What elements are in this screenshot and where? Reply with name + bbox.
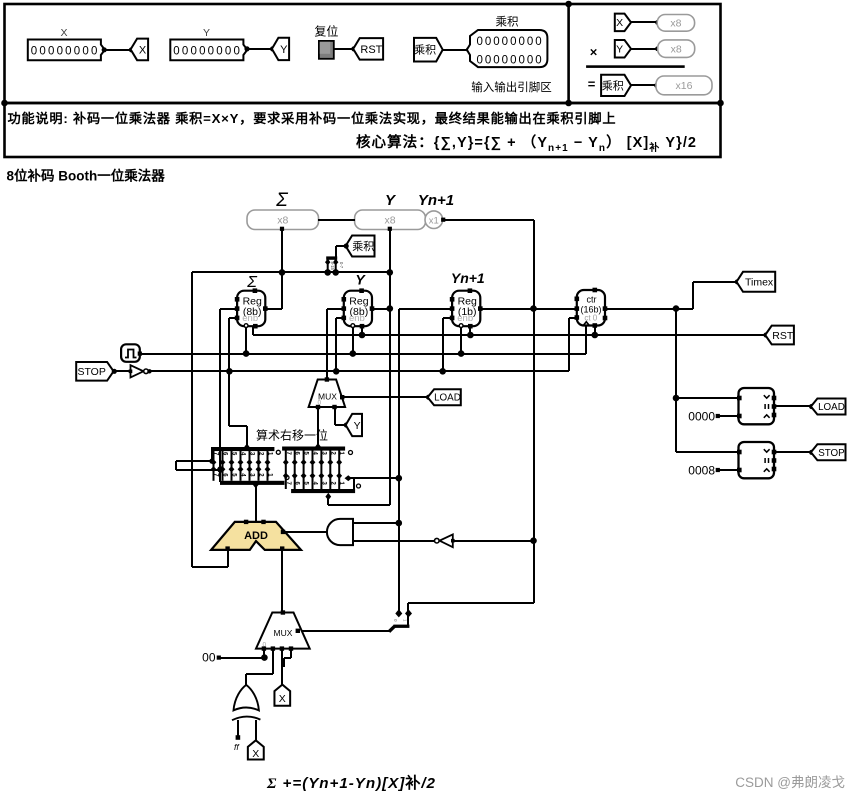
wire sigma feedback riser x=192.4 xyxy=(191,272,193,567)
svg-text:LOAD: LOAD xyxy=(434,393,461,404)
svg-text:输入输出引脚区: 输入输出引脚区 xyxy=(471,80,552,94)
svg-text:LOAD: LOAD xyxy=(818,402,845,413)
junction shifted-out on riser xyxy=(396,475,403,482)
wire x1 probe to Yn+1 drop xyxy=(444,219,534,221)
splitter right out stub arrow xyxy=(345,475,352,481)
wire comparator1 = to LOAD tunnel xyxy=(774,405,812,407)
tunnel X (formula box) xyxy=(615,14,631,32)
svg-text:Y: Y xyxy=(616,44,623,56)
wire Yn+1 net drop x=533.5 xyxy=(533,220,535,603)
solder dot Timex tip xyxy=(735,279,740,284)
constant 00 xyxy=(202,651,221,665)
wire splitter1 botbar lead xyxy=(219,470,221,482)
wire counter en stub xyxy=(569,317,577,319)
inverter NOT gate (west) xyxy=(435,534,455,547)
wire MUX1 select to LOAD tunnel xyxy=(344,396,429,398)
wire RegYn1 clock drop x=461.1 xyxy=(460,327,462,354)
wire RegY clock drop x=352.3 xyxy=(352,327,354,354)
wire clock net horizontal y=353.6 xyxy=(140,353,586,355)
adder ADD xyxy=(211,520,301,551)
clock component xyxy=(121,344,142,362)
junction Yn+1 probe tap xyxy=(530,305,537,312)
wire bracket vertical xyxy=(175,461,177,470)
wire MUX2 in3 drop xyxy=(290,649,292,658)
solder dot 乘积 tunnel tip xyxy=(344,243,349,248)
svg-text:算术右移一位: 算术右移一位 xyxy=(256,428,328,443)
wire 00 to MUX2 in0 xyxy=(219,657,264,659)
solder dot STOP left tip xyxy=(112,369,117,374)
solder dot RST right tip xyxy=(763,332,768,337)
wire RegSigma en riser x=229.4 xyxy=(228,318,230,426)
wire ADD out drop to MUX2 xyxy=(281,550,283,612)
wire comparator2 > to STOP tunnel xyxy=(774,451,812,453)
svg-text:CSDN @弗朗凌戈: CSDN @弗朗凌戈 xyxy=(735,775,845,790)
frame divider between pin area and formula box xyxy=(567,4,570,103)
tunnel STOP (left) xyxy=(76,362,113,381)
wire splitter2 botbar right lead xyxy=(353,478,355,490)
wire to Timex riser x=693 xyxy=(692,282,694,309)
tunnel LOAD (mid) xyxy=(428,389,461,405)
svg-text:0000: 0000 xyxy=(688,410,715,424)
wire MUX1 in0 drop to splitter2 xyxy=(317,407,319,446)
svg-text:STOP: STOP xyxy=(77,366,105,378)
splitter select leg2 arrow xyxy=(405,609,412,617)
input pin X (8-bit) xyxy=(28,40,105,61)
wire X pin to X tunnel xyxy=(104,49,132,51)
wire XOR inA from constant ff xyxy=(237,720,239,738)
probe x8 for Y register xyxy=(355,210,426,230)
wire ADD inA drop xyxy=(227,550,229,567)
svg-text:8-15: 8-15 xyxy=(330,262,335,271)
splitter left bottom exit arrow xyxy=(253,481,259,488)
svg-text:STOP: STOP xyxy=(818,448,845,459)
wire MUX1 in1 drop xyxy=(334,407,336,425)
tunnel X (top-left) xyxy=(131,39,149,61)
svg-text:00000000: 00000000 xyxy=(173,45,242,57)
wire MUX2 select horizontal y=631 xyxy=(298,630,390,632)
svg-text:=: = xyxy=(588,76,596,91)
junction RegSigma en on STOP-inv xyxy=(226,368,233,375)
solder dot RST tunnel tip xyxy=(351,46,356,51)
frame pin-area box xyxy=(5,4,721,103)
svg-text:Y: Y xyxy=(280,44,288,56)
junction product splitter leg B xyxy=(332,269,339,276)
probe x8 for X xyxy=(657,15,694,32)
tunnel STOP (right) xyxy=(811,444,846,460)
wire 乘积 tunnel lead horizontal xyxy=(336,245,347,247)
junction product splitter leg A xyxy=(324,269,331,276)
svg-text:00000000: 00000000 xyxy=(477,55,544,67)
corner dot splitter1 top lead xyxy=(209,459,214,464)
splitter product leg 8-15 xyxy=(325,259,330,273)
svg-text:RST: RST xyxy=(360,44,382,56)
svg-text:核心算法：{∑,Y}={∑ + （Yn+1 − Yn） [X: 核心算法：{∑,Y}={∑ + （Yn+1 − Yn） [X]补 Y}/2 xyxy=(356,133,696,154)
tunnel X (bottom) xyxy=(248,740,264,760)
tunnel 乘积 (formula box) xyxy=(601,75,631,96)
splitter right bottom entry arrow xyxy=(325,493,331,500)
junction RegYn1 reset on RST xyxy=(467,332,474,339)
wire bracket top horizontal xyxy=(176,460,212,462)
comparator U_stop (>= 0008) xyxy=(737,442,776,478)
svg-text:00: 00 xyxy=(202,651,216,665)
tunnel RST (top-left) xyxy=(353,38,383,60)
svg-text:8位补码 Booth一位乘法器: 8位补码 Booth一位乘法器 xyxy=(7,168,166,184)
junction RegY Q on Y net xyxy=(387,305,394,312)
wire RegY reset drop x=361.8 xyxy=(361,326,363,335)
wire RegY en stub xyxy=(336,317,344,319)
comparator U_load (== 0000) xyxy=(737,388,776,424)
svg-text:X: X xyxy=(252,748,259,760)
junction Yn+1 drop at NOT input xyxy=(530,537,537,544)
wire 0008 to comparator2 B xyxy=(718,469,738,471)
svg-text:X: X xyxy=(139,44,147,56)
wire sigma feedback bus horizontal y=272.4 xyxy=(192,271,390,273)
splitter right (Y shift) xyxy=(282,447,360,494)
wire splitter1 bottom to ADD xyxy=(255,484,257,522)
XOR gate (north) xyxy=(232,685,260,720)
svg-text:x8: x8 xyxy=(277,215,288,227)
pin square ∑ probe bottom xyxy=(280,227,284,231)
svg-text:RST: RST xyxy=(772,330,794,342)
svg-text:enb: enb xyxy=(242,313,258,324)
svg-text:乘积: 乘积 xyxy=(496,15,519,29)
solder dot x8 mid pin xyxy=(655,46,660,51)
wire Y feedback horizontal y=505.3 xyxy=(328,504,390,506)
multiplexer MUX2 xyxy=(256,610,310,651)
splitter right top entry arrow xyxy=(315,443,321,450)
splitter product tiny labels xyxy=(330,262,344,271)
tunnel Y (formula box) xyxy=(615,40,631,58)
wire Yn+1 elbow horizontal y=603.4 xyxy=(408,602,534,604)
solder dot LOAD right tip xyxy=(809,404,814,409)
wire STOP tunnel to inverter xyxy=(114,370,131,372)
junction RegYn1 clock xyxy=(458,350,465,357)
svg-text:0008: 0008 xyxy=(688,464,715,478)
junction MUX2 in0 xyxy=(261,654,268,661)
wire bracket bottom horizontal xyxy=(176,469,220,471)
wire splitter2 shifted-out to x=398.8 xyxy=(347,477,399,479)
register Y Reg(8b) xyxy=(342,288,375,328)
probe x8 for Y xyxy=(658,40,695,58)
svg-text:00000000: 00000000 xyxy=(477,36,544,48)
wire MUX1 in1 to Y tunnel xyxy=(335,424,346,426)
inverter NOT gate (east) xyxy=(129,365,149,377)
frame junction dot divider mid xyxy=(565,100,572,107)
tunnel Timex xyxy=(737,272,776,292)
wire STOP-inv net horizontal y=371.3 xyxy=(148,370,569,372)
svg-text:Timex: Timex xyxy=(745,277,774,289)
fraction bar xyxy=(586,65,685,68)
tunnel Y (mid) xyxy=(346,414,362,436)
tunnel 乘积 (sigma area) xyxy=(346,236,375,257)
wire RegYn1 Q to counter xyxy=(480,308,577,310)
solder dot LOAD mid tip xyxy=(426,395,431,400)
svg-text:功能说明: 补码一位乘法器 乘积=X×Y，要求采用补码一位: 功能说明: 补码一位乘法器 乘积=X×Y，要求采用补码一位乘法实现，最终结果能输… xyxy=(8,110,616,126)
wire RegSigma Q to riser xyxy=(265,308,282,310)
wire Yn+1 elbow drop x=408.5 xyxy=(407,603,409,625)
junction RegYn1 en on STOP-inv xyxy=(439,368,446,375)
wire AND input upper xyxy=(354,522,399,524)
pin square x1 probe right xyxy=(441,218,445,222)
svg-text:x1: x1 xyxy=(429,215,439,226)
wire MUX2 in1 to XOR out xyxy=(245,674,247,685)
push button 复位 xyxy=(319,41,334,59)
wire XOR inB from X tunnel xyxy=(255,720,257,741)
junction RegY en on STOP-inv xyxy=(333,368,340,375)
svg-text:Σ: Σ xyxy=(275,190,288,211)
probe x8 for ∑ xyxy=(247,210,319,230)
junction RegY reset on RST xyxy=(359,332,366,339)
splitter left (sum shift) xyxy=(211,447,289,485)
svg-text:Yn+1: Yn+1 xyxy=(418,192,454,209)
svg-text:乘积: 乘积 xyxy=(602,79,624,92)
wire riser x=398.8 (ctr D net) xyxy=(398,309,400,612)
svg-text:复位: 复位 xyxy=(314,24,338,39)
junction RegY clock xyxy=(350,350,357,357)
wire MUX1 out riser x=326.9 xyxy=(326,309,328,380)
wire counter Q out xyxy=(605,308,693,310)
wire to comparator1 input A xyxy=(676,397,738,399)
wire NOT input from Yn+1 net xyxy=(453,540,534,542)
svg-text:00000000: 00000000 xyxy=(31,45,100,57)
wire comparator riser x=676 xyxy=(675,309,677,452)
solder dot X tunnel tip xyxy=(129,47,134,52)
wire riser sigma probe x=282 xyxy=(281,229,283,309)
svg-text:enb: enb xyxy=(457,313,473,324)
constant 0000 xyxy=(688,410,720,424)
solder dot Y tunnel tip xyxy=(270,46,275,51)
register ∑ Reg(8b) xyxy=(235,288,268,328)
svg-text:ctr: ctr xyxy=(587,295,597,305)
constant ff xyxy=(234,735,240,752)
register Yn+1 Reg(1b) xyxy=(450,288,483,328)
wire elbow to splitter1 top xyxy=(229,425,247,427)
splitter select bar xyxy=(393,625,409,628)
svg-text:X: X xyxy=(616,17,623,29)
wire STOP-inv riser to counter en x=568.7 xyxy=(568,318,570,371)
wire RegSigma en stub xyxy=(229,317,237,319)
wire Y pin to Y tunnel xyxy=(246,48,273,50)
junction Y-net on feedback bus xyxy=(387,269,394,276)
wire counter reset drop xyxy=(594,326,596,335)
splitter select tiny labels xyxy=(393,619,408,622)
wire MUX2 in3 jog xyxy=(284,657,291,659)
counter ctr(16b) xyxy=(575,288,608,328)
wire ctr D line from corner to RegYn1 xyxy=(399,308,452,310)
output pin 乘积 (16-bit, two rows) xyxy=(467,30,548,67)
solder dot Y pin output xyxy=(244,46,249,51)
wire MUX2 in1 horizontal xyxy=(246,673,273,675)
solder dot x8 top pin xyxy=(655,20,660,25)
wire to Timex horizontal xyxy=(693,281,738,283)
wire X tunnel to x8 probe xyxy=(631,21,658,23)
wire RegSigma D riser x=220.4 xyxy=(219,309,221,470)
splitter product leg 0-7 xyxy=(333,259,338,273)
wire splitter1 topbar lead down xyxy=(211,449,213,461)
frame description box xyxy=(5,103,721,157)
wire RegY Q to Y net xyxy=(372,308,390,310)
svg-text:Σ +=(Yn+1-Yn)[X]补/2: Σ +=(Yn+1-Yn)[X]补/2 xyxy=(266,774,436,792)
wire RegYn1 en drop x=442.7 xyxy=(442,318,444,371)
wire MUX2 in0 stub xyxy=(263,649,265,658)
solder dot STOP right tip xyxy=(809,450,814,455)
tunnel LOAD (right) xyxy=(811,399,846,415)
solder dot X pin output xyxy=(102,47,107,52)
solder dot inverter out xyxy=(147,369,151,373)
wire button to RST tunnel xyxy=(334,48,354,50)
constant 0008 xyxy=(688,464,720,478)
svg-text:乘积: 乘积 xyxy=(352,240,374,253)
wire Y net riser x=389.8 xyxy=(389,229,391,505)
svg-text:X: X xyxy=(60,27,67,39)
tunnel RST (right) xyxy=(765,326,794,345)
splitter product 2-way bar xyxy=(326,256,337,259)
splitter select bus diagonal xyxy=(389,626,395,631)
solder dot product pin input xyxy=(466,47,471,52)
AND gate (west) xyxy=(327,519,353,545)
solder dot Y mid tip xyxy=(344,422,349,427)
wire 乘积 tunnel to product output pin xyxy=(443,49,470,51)
wire MUX2 in2 drop to X tunnel xyxy=(281,649,283,686)
wire between ∑ probe and Y probe xyxy=(318,219,355,221)
multiplexer MUX1 xyxy=(309,377,346,409)
svg-text:Y: Y xyxy=(203,27,210,39)
wire RegSigma reset drop x=253.2 xyxy=(252,326,254,335)
tunnel 乘积 (pin area) xyxy=(414,38,443,62)
wire clock riser to counter x=586.3 xyxy=(585,326,587,354)
probe x1 for Yn+1 xyxy=(425,211,443,229)
wire RegYn1 reset drop x=470.7 xyxy=(469,326,471,335)
svg-text:X: X xyxy=(279,693,286,705)
wire Y tunnel to x8 probe xyxy=(631,48,658,50)
wire RST net horizontal y=335 xyxy=(253,334,766,336)
junction AND upper input on riser xyxy=(396,520,403,527)
svg-text:x8: x8 xyxy=(671,43,682,55)
svg-text:Yn+1: Yn+1 xyxy=(451,270,485,286)
junction bracket splitter1 bottom lead xyxy=(217,466,223,472)
wire 0000 to comparator1 B xyxy=(718,415,738,417)
tunnel Y (top-left) xyxy=(272,38,289,60)
junction comparator1 tap xyxy=(673,395,680,402)
svg-text:×: × xyxy=(590,45,598,60)
splitter select leg1 arrow xyxy=(395,609,402,617)
wire RegSigma clock drop x=246 xyxy=(245,327,247,354)
svg-text:Y: Y xyxy=(354,420,361,432)
wire AND input lower xyxy=(354,540,434,542)
wire RegSigma D from splitter xyxy=(220,308,237,310)
wire MUX2 in1 drop xyxy=(272,649,274,674)
wire ADD carry to AND out xyxy=(285,531,328,533)
junction counter reset on RST xyxy=(592,332,599,339)
svg-text:x16: x16 xyxy=(676,80,693,92)
tunnel X (below MUX2) xyxy=(274,685,290,706)
wire splitter2 bottom bus drop xyxy=(327,496,329,505)
wire comparator2 input A xyxy=(676,451,738,453)
frame junction dot right mid xyxy=(717,100,724,107)
junction RegSigma clock xyxy=(243,350,250,357)
pin square Y probe bottom xyxy=(388,227,392,231)
svg-text:0-7: 0-7 xyxy=(339,262,344,269)
svg-text:enb: enb xyxy=(349,313,365,324)
wire RegYn1 en stub xyxy=(443,317,452,319)
frame junction dot top divider xyxy=(565,1,572,8)
solder dot x16 pin xyxy=(654,83,659,88)
input pin Y (8-bit) xyxy=(170,40,247,61)
wire MUX2 in3 join xyxy=(283,658,285,667)
wire 乘积 tunnel to x16 probe xyxy=(631,84,657,86)
svg-text:x8: x8 xyxy=(670,18,681,30)
splitter left top entry arrow xyxy=(244,444,250,451)
svg-text:x8: x8 xyxy=(385,215,396,227)
junction counter Q split xyxy=(673,305,680,312)
svg-text:乘积: 乘积 xyxy=(414,44,436,57)
wire ADD inA horizontal y=567.3 xyxy=(192,566,228,568)
wire splitter1 top bus entry x=246.9 xyxy=(246,426,248,447)
junction sigma-probe on feedback bus xyxy=(279,269,286,276)
svg-text:ADD: ADD xyxy=(244,530,268,542)
wire RegY en drop x=336.2 xyxy=(335,318,337,371)
svg-text:MUX: MUX xyxy=(274,628,293,638)
frame junction dot left mid xyxy=(1,100,8,107)
wire 乘积 tunnel lead vertical xyxy=(335,246,337,258)
wire RegY D from MUX1 xyxy=(327,308,344,310)
probe x16 for product xyxy=(656,76,712,95)
